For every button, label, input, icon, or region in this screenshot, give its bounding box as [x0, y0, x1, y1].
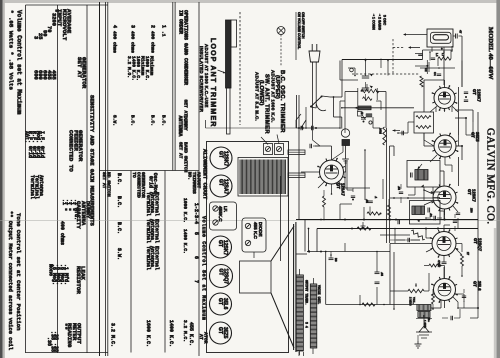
wire: right rail vertical — [477, 220, 479, 309]
ground symbol mid — [362, 222, 364, 226]
svg-text:GALVIN MFG. CO.: GALVIN MFG. CO. — [485, 128, 496, 225]
svg-text:None: None — [48, 264, 54, 276]
svg-text:GT: GT — [473, 238, 478, 244]
svg-text:2 GANG: 2 GANG — [377, 17, 381, 30]
svg-text:455 K.C: 455 K.C — [253, 222, 258, 240]
svg-text:S.W.: S.W. — [112, 115, 118, 126]
svg-text:SET AT: SET AT — [183, 100, 189, 117]
rail junction dots — [344, 219, 346, 221]
wire: T3 to ground — [417, 335, 419, 341]
wire: V3 left pins — [424, 190, 433, 194]
svg-text:B.C.: B.C. — [161, 115, 167, 126]
svg-text:600: 600 — [32, 70, 38, 80]
antenna coupling wire — [340, 79, 358, 81]
svg-text:400 ohms: 400 ohms — [150, 31, 156, 53]
trimmer screw 1 (bc osc upper) — [264, 144, 273, 155]
page fold line — [0, 220, 500, 222]
svg-text:Ant.: Ant. — [24, 131, 30, 143]
T1 resistor — [416, 126, 431, 129]
T2b winding — [412, 206, 425, 215]
cap bottom right — [450, 316, 452, 320]
output transformer winding secondary — [310, 284, 317, 348]
wire: 35L6 plate down — [440, 301, 442, 309]
svg-text:1 CONN: 1 CONN — [371, 17, 375, 30]
svg-text:2: 2 — [150, 25, 156, 28]
svg-text:.01: .01 — [429, 213, 433, 217]
osc coil form sides — [357, 88, 359, 112]
svg-text:GT: GT — [467, 189, 472, 195]
layout tube V3 socket — [210, 236, 232, 258]
gang label arrow 1 — [373, 14, 375, 17]
svg-text:LOOP ANT TRIMMER: LOOP ANT TRIMMER — [209, 38, 216, 128]
wire: det drop — [344, 243, 346, 252]
wire: under T1 — [408, 121, 414, 123]
wire: 12SA7 left — [301, 171, 320, 173]
svg-text:SET AT: SET AT — [101, 172, 107, 189]
cathode resistor E — [432, 294, 435, 304]
wire: x458 to V6 — [458, 135, 460, 146]
layout tube V5 socket — [210, 293, 232, 315]
wire: 12SA7 grid — [331, 146, 333, 160]
svg-text:CONNECTED TO: CONNECTED TO — [68, 130, 75, 172]
wire: speaker connect — [302, 352, 304, 356]
ac plug body — [309, 51, 320, 62]
wire: V2 pins lower — [331, 184, 333, 194]
ac cord wire b — [315, 62, 317, 104]
rail y59 junction dots — [365, 59, 367, 61]
svg-text:1-2-3-4: 1-2-3-4 — [193, 203, 199, 224]
tuning gang cap 2 — [362, 87, 369, 89]
svg-text:* .05 Watts * .38 Volts: * .05 Watts * .38 Volts — [8, 10, 15, 91]
sensitivity table header separator — [57, 5, 59, 353]
layout tube V4 socket — [210, 265, 233, 288]
wire: osc coil left — [345, 91, 358, 93]
layout IF can 455kc — [210, 202, 237, 230]
wire: V1 bottom connects — [444, 109, 446, 113]
wire: grid cluster top right — [455, 109, 473, 111]
wire: ballast to rail — [461, 36, 463, 60]
tube V6 35Z5 rectifier — [434, 135, 456, 157]
alignment header double rule a — [172, 2, 174, 171]
wire: diode can drop — [253, 252, 255, 258]
wire: T1 bottom — [423, 133, 425, 140]
tube V4 12SQ7 detector — [432, 232, 456, 256]
svg-text:.05: .05 — [380, 272, 384, 276]
svg-text:Terminal: Terminal — [145, 219, 151, 243]
layout gang condenser — [238, 158, 288, 197]
ac plug prong 1 — [311, 44, 313, 51]
svg-text:B.C.: B.C. — [116, 196, 122, 208]
T2a adjust arrow top — [418, 166, 421, 169]
svg-text:Terminal: Terminal — [145, 246, 151, 270]
wire: top heater rail — [342, 59, 423, 61]
speaker cone lower — [271, 293, 294, 348]
wire: 35L6 screen — [444, 301, 446, 309]
wire: left top — [295, 12, 297, 60]
svg-text:Terminal: Terminal — [29, 175, 35, 199]
wire: osc area verticals — [344, 92, 346, 134]
svg-text:GT: GT — [217, 327, 223, 334]
layout diode can 455kc — [242, 218, 266, 252]
wire: transformer tops — [299, 269, 301, 275]
wire: right col jogs — [465, 126, 467, 135]
wire: b+ top row — [423, 49, 454, 51]
svg-text:GT: GT — [218, 269, 224, 276]
small circle gnd top — [350, 68, 354, 72]
resistor bottom mid — [362, 303, 375, 306]
wire: lamp down — [345, 146, 347, 160]
ground symbol bottom — [417, 341, 419, 344]
svg-text:SET AT: SET AT — [76, 57, 83, 78]
svg-text:3200: 3200 — [50, 13, 56, 26]
loop antenna bar — [226, 20, 232, 88]
svg-text:L4: L4 — [435, 53, 439, 57]
wire: heater rail drops — [387, 61, 389, 76]
table top cap rule — [26, 4, 108, 6]
svg-text:GT: GT — [472, 281, 477, 287]
svg-text:250: 250 — [470, 208, 474, 213]
svg-text:OUTPUT TRANS.: OUTPUT TRANS. — [304, 280, 308, 305]
wire: top right feed — [461, 61, 463, 88]
wire: gang cap drops — [365, 61, 367, 77]
T2a winding — [415, 170, 428, 181]
wire: mid vertical x347 — [346, 160, 348, 190]
power switch lever — [311, 96, 323, 107]
wire: lamp bottom — [345, 160, 347, 172]
wire: 12sq7 connects — [390, 243, 432, 245]
T2a trimmer cap — [410, 173, 412, 178]
tube V1 12SK7 RF — [434, 88, 455, 109]
gang condenser terminal bar 2 — [288, 173, 305, 178]
osc coil winding 2 — [363, 97, 373, 101]
svg-text:ANTENNA: ANTENNA — [177, 116, 183, 137]
trimmer screw 2 (sw ant lower) — [275, 144, 284, 155]
svg-text:S.W.: S.W. — [116, 248, 122, 260]
layout tube V6 socket — [210, 322, 232, 344]
svg-text:GT: GT — [472, 89, 477, 95]
alignment header double rule b — [174, 2, 176, 171]
wire: loop to grid — [205, 120, 207, 128]
svg-text:Volume Control set at Maximum: Volume Control set at Maximum — [16, 10, 23, 115]
cap near D — [453, 220, 457, 222]
wire: y198 row — [390, 197, 440, 199]
osc coil winding 1 — [361, 89, 379, 93]
resistor right of D — [461, 254, 464, 266]
trimmer leader line 1 — [261, 137, 268, 145]
ballast box outer — [427, 29, 453, 47]
svg-text:3 4: 3 4 — [304, 322, 308, 328]
wire: band switch row — [296, 127, 340, 129]
alignment table right rule — [198, 2, 200, 356]
osc coil core box — [358, 106, 371, 110]
T3 frame — [416, 318, 432, 320]
svg-text:.38: .38 — [50, 343, 56, 352]
wire: avc long left — [339, 204, 341, 220]
T2a adjust arrow bottom — [421, 185, 424, 188]
svg-text:.1: .1 — [161, 31, 167, 37]
svg-text:VOICE COIL: VOICE COIL — [317, 285, 321, 304]
ballast box inner — [431, 32, 452, 43]
svg-text:ON VOLUME CONTROL: ON VOLUME CONTROL — [297, 12, 301, 49]
wire: lamp-to-T1 row — [342, 107, 414, 109]
wire: switch to rail — [322, 96, 330, 97]
wire: V1 pins drop — [435, 107, 437, 112]
speaker symbol small — [419, 326, 429, 332]
loop antenna trimmer bar — [231, 20, 237, 47]
avc arrow — [307, 250, 310, 253]
wire: V3 cathode parts — [453, 206, 458, 212]
bus wire a — [386, 128, 388, 243]
diag resistor — [410, 229, 425, 240]
svg-text:400 ohms: 400 ohms — [130, 31, 136, 53]
table bottom cap rule — [26, 352, 108, 354]
svg-text:3.2 M.O.: 3.2 M.O. — [126, 56, 132, 78]
wire: det diode wires — [426, 237, 432, 239]
svg-text:TO: TO — [131, 172, 137, 178]
speaker cone upper — [271, 226, 294, 261]
trimmer leader line 2 — [277, 135, 279, 144]
wire: E right pins — [456, 293, 465, 295]
svg-text:B.C.: B.C. — [130, 115, 136, 126]
svg-text:SET AT: SET AT — [178, 142, 184, 159]
svg-text:*: * — [51, 9, 58, 12]
svg-text:400 ohms: 400 ohms — [112, 31, 118, 53]
capacitor output — [462, 295, 466, 297]
wire: right column — [458, 87, 460, 135]
wire: ballast top — [404, 34, 427, 36]
svg-text:6: 6 — [193, 256, 199, 259]
T2b adjust arrow — [417, 219, 420, 222]
osc grid arrow — [393, 129, 396, 131]
gang condenser terminal bar 1 — [288, 150, 305, 155]
wire: Q4 horizontal a — [380, 234, 410, 236]
capacitor mid cluster — [437, 73, 441, 75]
svg-text:400 ohms: 400 ohms — [59, 221, 65, 245]
wire: D to E coupling — [443, 256, 445, 263]
svg-text:ADJUST AT 1600 K.C.: ADJUST AT 1600 K.C. — [270, 70, 275, 123]
T2b trimmer cap — [427, 208, 429, 213]
wire: T2 drops — [414, 187, 416, 195]
wire: avc feed left — [307, 251, 345, 253]
wire: bus second pair — [393, 252, 395, 309]
capacitor line filter — [415, 53, 423, 55]
wire: V3 grid from T2 — [433, 197, 440, 199]
loop antenna bar lower — [227, 88, 231, 134]
resistor top cluster — [438, 57, 451, 60]
wire: V3 plate drop — [444, 209, 446, 220]
svg-text:C4: C4 — [433, 72, 437, 76]
gang label arrow 2 — [379, 14, 381, 17]
svg-text:**: ** — [61, 323, 68, 330]
svg-text:1400 K.C.: 1400 K.C. — [182, 229, 188, 254]
avc resistor — [367, 212, 380, 215]
wire: T2 right connects — [440, 170, 444, 172]
svg-text:3: 3 — [32, 36, 38, 39]
wire: top cluster row2 — [420, 67, 455, 69]
loop trimmer leader — [218, 70, 226, 73]
svg-text:AT: AT — [198, 334, 204, 340]
wire: mid horizontals — [345, 187, 370, 189]
IF transformer T2a can — [407, 161, 440, 188]
tube V2 12SA7 converter — [320, 160, 344, 184]
svg-text:1600 K.C.: 1600 K.C. — [182, 198, 188, 223]
wire: right rail vertical top — [477, 112, 479, 220]
dial lamp circle — [341, 129, 349, 137]
wire: ac cord down — [312, 112, 314, 128]
wire: speaker field — [296, 253, 307, 255]
cap cluster mid — [351, 195, 355, 197]
capacitor det 2 — [407, 238, 409, 242]
ac cord wire a — [312, 62, 314, 112]
wire: B+ rail 2 — [317, 228, 478, 230]
svg-text:RESISTOR: RESISTOR — [75, 266, 82, 294]
wire: voice coil down — [299, 351, 301, 355]
wire: rail drop left — [304, 220, 306, 252]
chassis layout box — [207, 142, 289, 353]
table outer rule — [99, 2, 101, 356]
wire: left drop from band switch — [305, 107, 307, 128]
wire: bottom left drop — [389, 252, 391, 292]
avc capacitor — [367, 200, 373, 202]
resistor R det — [388, 205, 391, 217]
svg-text:Terminal: Terminal — [145, 192, 151, 216]
svg-text:NO.: NO. — [187, 172, 193, 180]
osc feed arrow — [355, 107, 358, 109]
wire: D pins right — [456, 243, 462, 245]
dial lamp base — [342, 140, 350, 146]
ballast dial slot — [433, 35, 449, 40]
svg-text:.05: .05 — [397, 186, 401, 190]
capacitor .005 — [300, 126, 302, 130]
svg-text:1 SPK: 1 SPK — [423, 320, 427, 328]
wire: cord S-curve — [316, 104, 326, 111]
layout tube V2 socket — [210, 175, 232, 197]
IF transformer T1 box — [414, 112, 434, 133]
capacitor det 1 — [397, 220, 399, 224]
wire: T3 down — [423, 315, 425, 326]
wire: osc coil right — [376, 91, 386, 93]
IF transformer T2b can — [410, 201, 441, 225]
wire: plug to switch — [315, 104, 317, 108]
wire: lamp branch — [333, 97, 335, 117]
capacitor C det3 — [433, 216, 435, 220]
wire: osc to tube — [340, 100, 345, 102]
speaker magnet frame — [240, 261, 272, 293]
output transformer T3 winding b — [418, 312, 430, 318]
resistor on rail2 — [357, 227, 371, 230]
wire: bus jog — [390, 145, 395, 147]
svg-text:455 K.C.: 455 K.C. — [188, 322, 194, 346]
wire: x365 drop — [364, 150, 366, 200]
svg-text:B.C.: B.C. — [150, 115, 156, 126]
capacitor C det2 — [399, 191, 403, 193]
svg-text:** Output Meter connected acro: ** Output Meter connected across voice c… — [7, 211, 13, 351]
wire: bottom rail — [326, 304, 417, 306]
svg-text:GT: GT — [217, 298, 223, 305]
svg-text:GT: GT — [218, 151, 224, 158]
cap under T1 — [401, 131, 403, 135]
wire: ballast drops — [431, 47, 433, 52]
svg-text:1600 K.C.: 1600 K.C. — [145, 320, 151, 347]
svg-text:47: 47 — [459, 30, 463, 34]
capacitor B8 — [329, 257, 334, 259]
svg-text:1400 K.C.: 1400 K.C. — [168, 320, 174, 347]
svg-text:3.2 M.C.: 3.2 M.C. — [110, 323, 116, 347]
svg-text:ADJUST AT 3.2 M.C.: ADJUST AT 3.2 M.C. — [254, 72, 259, 121]
gang linkage dashed horizontal — [352, 73, 420, 75]
wire: mid jogs2 — [372, 117, 374, 128]
capacitor top cluster b — [431, 57, 435, 59]
band switch lever — [301, 120, 306, 128]
bus wire b — [389, 146, 391, 243]
svg-text:.1 ": .1 " — [61, 199, 67, 211]
wire: det area verticals — [382, 179, 384, 199]
svg-text:1: 1 — [161, 25, 167, 28]
sensitivity table top border — [86, 5, 88, 353]
tuning gang cap 1 — [362, 75, 369, 77]
sensitivity table bottom border — [25, 5, 27, 353]
wire: C-D interconnect — [444, 209, 446, 215]
svg-text:E: E — [360, 112, 364, 114]
svg-text:7: 7 — [193, 280, 199, 283]
gang linkage dashed line — [239, 12, 241, 125]
svg-text:Volume Control Set at Maximum: Volume Control Set at Maximum — [201, 216, 207, 320]
svg-text:3.2 M.C.: 3.2 M.C. — [182, 320, 188, 342]
wire: bottom rail drops — [359, 295, 361, 305]
layout tube V1 socket — [210, 147, 232, 169]
T1 winding — [416, 116, 431, 119]
svg-text:GT: GT — [218, 179, 224, 186]
svg-text:3: 3 — [130, 25, 136, 28]
speaker mouth rim — [293, 224, 295, 350]
wire: Q4 horizontal b — [390, 239, 420, 241]
small caps near V1 — [464, 91, 468, 93]
svg-text:B.C.: B.C. — [116, 222, 122, 234]
capacitor .01 — [311, 126, 313, 130]
wire: 2nd left arrow — [409, 47, 420, 49]
svg-text:5: 5 — [193, 232, 199, 235]
resistor V2 cathode — [323, 196, 326, 207]
tube V3 12SK7 IF — [433, 186, 456, 209]
wire: 35Z5 heater jogs — [424, 145, 434, 147]
wire: sq7 plate up — [443, 229, 445, 232]
svg-text:MODEL 40—60W: MODEL 40—60W — [487, 27, 494, 80]
osc padder cap — [361, 117, 366, 119]
svg-text:Grid: Grid — [148, 176, 154, 188]
output transformer T3 winding a — [417, 305, 431, 311]
svg-text:ALIGNMENT CHART: ALIGNMENT CHART — [202, 149, 209, 200]
svg-text:B.C.: B.C. — [116, 173, 122, 185]
wire: V1 plate to T1 — [444, 80, 446, 87]
pilot cap 47 — [455, 34, 457, 39]
wire: plug cord stub — [312, 128, 314, 140]
output transformer winding primary — [296, 275, 303, 351]
svg-text:4: 4 — [112, 25, 118, 28]
wire: right side drop — [477, 308, 479, 318]
wire: speaker feed vertical — [280, 176, 282, 261]
wire: output right drop — [458, 307, 478, 309]
svg-text:Tone Control set at Center Pos: Tone Control set at Center Position — [15, 213, 22, 331]
svg-text:IN ORDER: IN ORDER — [178, 10, 184, 34]
svg-text:455K.C: 455K.C — [218, 206, 223, 222]
table band separator — [100, 170, 200, 172]
alignment table inner rule — [130, 171, 132, 353]
svg-text:B8: B8 — [334, 258, 338, 262]
svg-text:27: 27 — [466, 252, 470, 256]
svg-text:470K: 470K — [437, 260, 441, 267]
osc terminal box E — [358, 112, 363, 117]
wire: avc — [305, 219, 340, 221]
